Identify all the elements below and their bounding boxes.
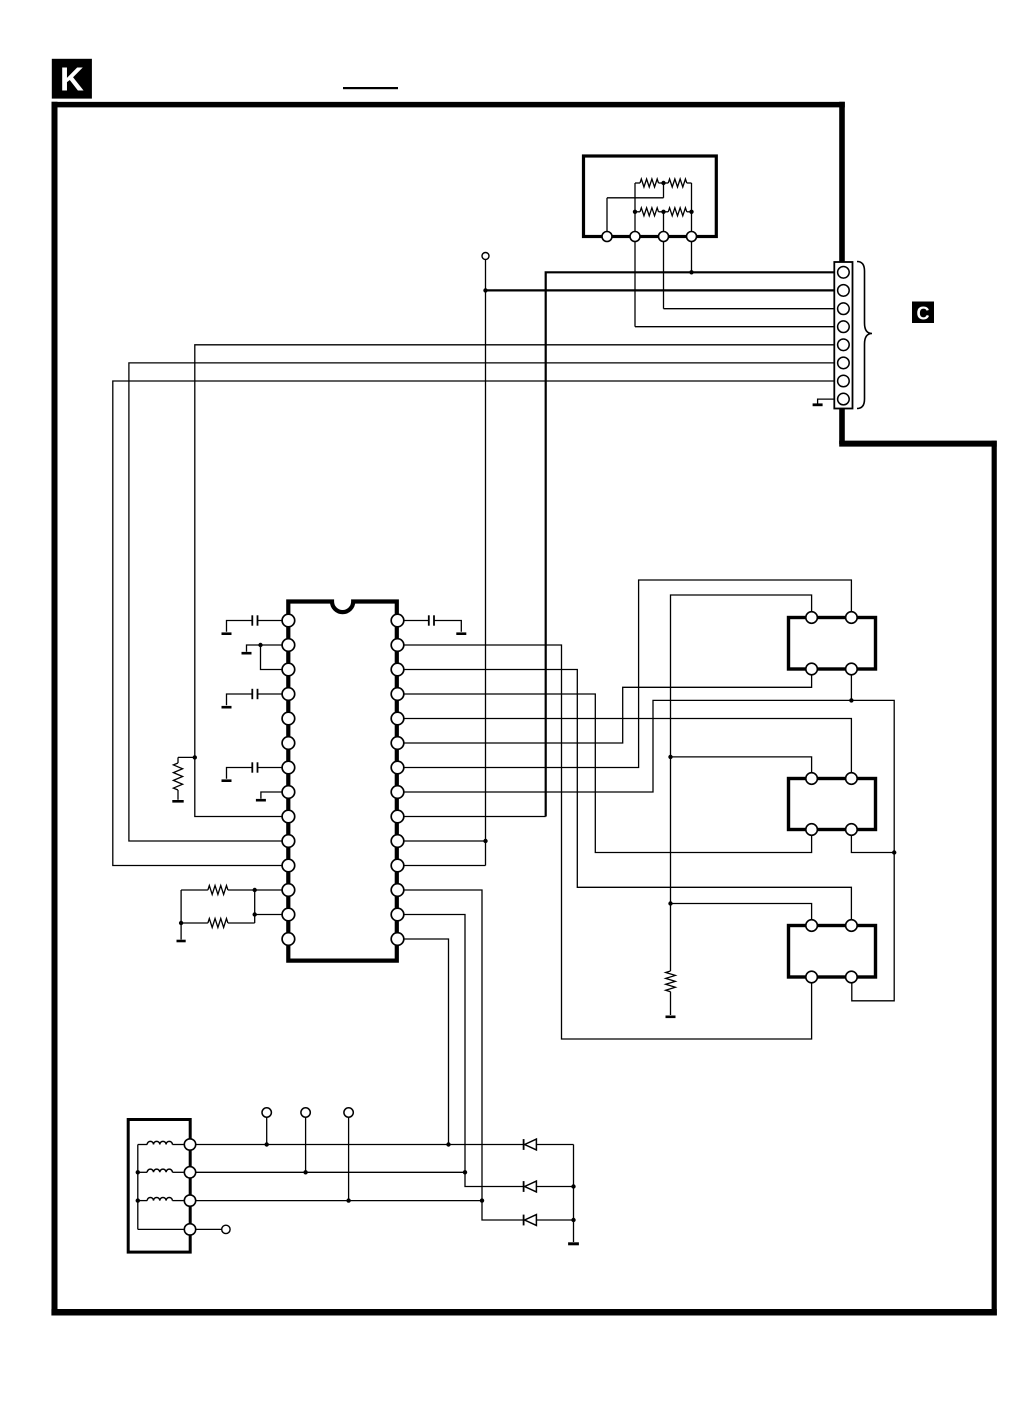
svg-text:C: C	[917, 304, 930, 324]
svg-text:K: K	[60, 61, 84, 98]
